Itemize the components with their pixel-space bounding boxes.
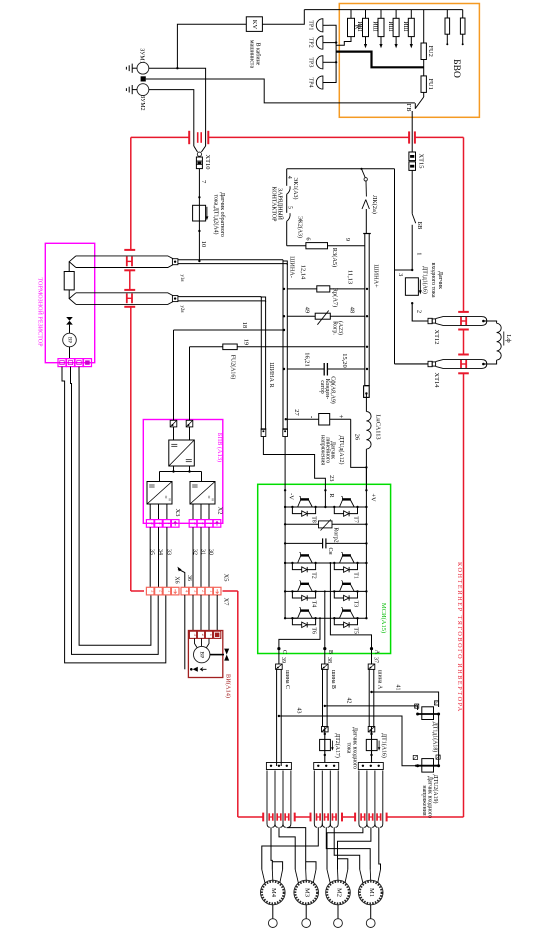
svg-text:БВО: БВО — [451, 59, 461, 78]
plug XT12 — [428, 318, 432, 323]
svg-text:A: A — [374, 650, 381, 655]
svg-text:Rогр.: Rогр. — [331, 321, 337, 335]
bus BUS+ bar — [365, 234, 369, 386]
svg-text:42: 42 — [345, 698, 351, 704]
sensor DT2(A17) phase B current — [324, 733, 326, 735]
connector XT15 — [409, 152, 416, 161]
switch BV — [412, 214, 416, 223]
snubber capacitor Cn — [285, 542, 323, 544]
right rail +V — [365, 507, 367, 618]
svg-text:ВИ(А14): ВИ(А14) — [224, 674, 231, 698]
svg-text:ЛК(2а): ЛК(2а) — [371, 195, 378, 214]
bushing insulators — [446, 10, 448, 18]
red feedthroughs at XT12/XT14 tubes — [458, 311, 469, 313]
weave daisy links — [272, 862, 282, 866]
sensor DT1d2(A4) reverse current — [198, 196, 200, 198]
svg-text:ИШ: ИШ — [402, 21, 408, 31]
ground for ZUM1 — [132, 67, 137, 69]
fuse FU2 — [423, 10, 425, 43]
lower converter left — [147, 482, 172, 505]
phase B takeoff from row2 — [324, 591, 326, 648]
svg-text:36: 36 — [186, 575, 192, 581]
svg-text:ШИНА-: ШИНА- — [289, 256, 296, 278]
red container outline - top edge — [131, 136, 189, 138]
MSI(A15) green box — [258, 484, 391, 653]
svg-text:ЭК1(А3): ЭК1(А3) — [292, 178, 299, 200]
BVO top bus wire — [304, 9, 462, 11]
phase row 2 T4 T3 — [285, 590, 366, 592]
motor M4 — [261, 880, 286, 905]
svg-text:ЭК2(А3): ЭК2(А3) — [297, 216, 304, 238]
svg-text:ДТ2(А17): ДТ2(А17) — [334, 733, 341, 758]
svg-text:Т3: Т3 — [352, 601, 358, 608]
svg-text:R: R — [328, 493, 335, 498]
BVO orange box — [339, 4, 479, 118]
wires X7 to VI box — [192, 595, 194, 631]
svg-text:43: 43 — [295, 708, 301, 714]
brake fan supply wires (3 nested U) — [62, 367, 166, 663]
wire ZUM2 to cable left line — [149, 90, 194, 146]
shina C bar — [276, 664, 283, 669]
bundle C — [266, 763, 291, 770]
wire 3 tap to left drop — [411, 269, 413, 271]
svg-text:ДТ1(А16): ДТ1(А16) — [381, 733, 388, 758]
svg-text:М1: М1 — [368, 888, 375, 897]
lower converter right — [190, 482, 215, 505]
converter outputs to X3 — [149, 504, 151, 520]
connector XT10 — [197, 152, 201, 156]
svg-text:26: 26 — [353, 434, 360, 440]
bundle A — [358, 763, 383, 770]
bus BUS- bar — [283, 261, 287, 429]
weave wires — [271, 827, 272, 866]
svg-text:у2я: у2я — [179, 305, 184, 313]
inductor LnCA113 — [365, 394, 367, 412]
TP feeder vertical — [329, 25, 336, 82]
svg-text:БВ: БВ — [416, 222, 423, 230]
svg-text:6: 6 — [304, 237, 311, 240]
svg-text:Rр(А7): Rр(А7) — [332, 288, 339, 308]
resistor R3(A5) row — [287, 245, 306, 247]
buzzer ZUM1 — [137, 62, 149, 74]
wires 32 31 30 — [192, 527, 194, 587]
wire 41 phase A to DT sensors — [370, 691, 372, 693]
phase row 1 T2 T1 — [285, 562, 366, 564]
contactor LK(2a) — [360, 168, 362, 170]
charging contactor bracket wire — [286, 169, 288, 186]
svg-text:38: 38 — [326, 657, 332, 663]
svg-text:+V: +V — [370, 493, 377, 502]
contact EK2(A3) — [287, 213, 290, 221]
svg-text:ШИНА+: ШИНА+ — [373, 264, 380, 288]
sensor DT1d1(A6) input current — [405, 278, 418, 296]
svg-text:КОНТАКТОР: КОНТАКТОР — [271, 187, 277, 223]
switch GV — [423, 92, 425, 97]
wire to XT12 — [412, 303, 428, 321]
svg-text:ДТUд(А12): ДТUд(А12) — [338, 436, 345, 465]
wire KV left to ZUM1 — [177, 24, 246, 68]
svg-text:XT12: XT12 — [433, 330, 440, 345]
resistor tube 1 — [76, 256, 173, 259]
svg-text:C: C — [281, 650, 288, 654]
sensor DT1(A16) phase A current — [370, 733, 372, 735]
bundle B — [314, 763, 339, 770]
row resistor Rr(A7) — [287, 288, 317, 290]
svg-text:FU2(А16): FU2(А16) — [229, 355, 236, 380]
svg-text:шина C: шина C — [284, 670, 290, 689]
red feedthrough at GV wire — [408, 131, 410, 143]
inductor Lf — [484, 321, 497, 323]
svg-text:+: + — [337, 415, 345, 419]
red link to X5 connector row — [131, 590, 144, 592]
phase output dots — [277, 647, 280, 650]
wires 35 34 33 — [149, 527, 151, 587]
svg-text:Т2: Т2 — [311, 572, 317, 579]
red container outline - bottom edge segments — [238, 816, 263, 818]
svg-text:напряжения: напряжения — [319, 435, 325, 465]
svg-text:Rогр2: Rогр2 — [332, 527, 338, 542]
svg-text:Т5: Т5 — [352, 627, 358, 634]
svg-text:LнСА113: LнСА113 — [374, 414, 381, 439]
svg-text:ВР: ВР — [199, 651, 205, 658]
brake box connector squares — [58, 359, 66, 367]
snubber resistor Rogr2 — [285, 523, 318, 525]
svg-text:Т4: Т4 — [311, 601, 317, 608]
phase row 3 T6 T5 — [285, 617, 366, 619]
row capacitor Cf(A8,A9) — [287, 368, 324, 370]
sensor DT1d1(A18) — [422, 707, 434, 720]
IGBT T7 — [334, 506, 339, 508]
svg-text:37: 37 — [372, 657, 378, 663]
svg-text:XT14: XT14 — [433, 373, 440, 389]
svg-text:БПВ (А13): БПВ (А13) — [216, 433, 223, 462]
svg-text:FU2: FU2 — [427, 46, 434, 57]
svg-text:B: B — [327, 650, 334, 654]
svg-text:М3: М3 — [304, 888, 311, 897]
sensor DTU2(A19) — [422, 759, 434, 773]
svg-text:XT15: XT15 — [417, 154, 424, 169]
svg-text:В кабине: В кабине — [254, 43, 261, 66]
svg-text:ТР2: ТР2 — [308, 38, 314, 48]
brake resistor magenta box — [45, 243, 94, 362]
row varistor Rogr(A23) — [287, 315, 315, 317]
VI connector squares — [189, 631, 196, 638]
wire GV to red boundary and XT15 — [411, 111, 413, 152]
motor M3 — [294, 880, 319, 905]
BPV magenta box — [143, 420, 223, 524]
svg-text:МСИ(А15): МСИ(А15) — [380, 603, 387, 633]
bus BUS R bar — [261, 297, 265, 429]
bus R feed path wire 23 — [263, 437, 325, 508]
svg-text:X5: X5 — [222, 574, 229, 582]
red feedthrough at XT10 cable — [188, 131, 190, 144]
svg-text:X3: X3 — [174, 509, 181, 517]
svg-text:R3(А5): R3(А5) — [331, 248, 338, 268]
svg-text:32: 32 — [191, 549, 197, 555]
svg-text:27: 27 — [293, 409, 300, 416]
svg-text:ИШ: ИШ — [372, 21, 378, 31]
svg-text:шина A: шина A — [376, 670, 382, 690]
svg-text:41: 41 — [394, 685, 400, 691]
link A18 to A19 — [438, 714, 440, 766]
wire 36 down to VI — [184, 595, 186, 669]
contact EK1(A3) — [287, 186, 290, 194]
red link X7 row to inner corner — [223, 590, 238, 592]
svg-text:FU1: FU1 — [427, 79, 434, 90]
svg-text:ИШ: ИШ — [387, 21, 393, 31]
red container outline - right edge — [463, 137, 465, 312]
buzzer ZUM2 — [137, 84, 149, 96]
fuse FU1 — [423, 60, 425, 76]
box KV — [246, 17, 262, 32]
svg-text:шина B: шина B — [330, 670, 336, 689]
wire ZUM1 to cable right line — [176, 67, 178, 69]
svg-text:49: 49 — [304, 307, 311, 313]
resistor tube 2 — [76, 293, 173, 296]
svg-text:48: 48 — [349, 307, 356, 313]
connector arrows inside VI — [193, 667, 198, 672]
svg-text:Сн: Сн — [327, 547, 333, 555]
top DC converter — [173, 427, 175, 440]
motor terminal drops — [261, 866, 263, 870]
plug XT14 — [428, 361, 432, 366]
VI(A14) box — [188, 631, 222, 678]
svg-text:КОНТЕЙНЕР ТЯГОВОГО ИНВЕРТОРА: КОНТЕЙНЕР ТЯГОВОГО ИНВЕРТОРА — [456, 562, 464, 713]
wire 43 phase C — [278, 715, 280, 717]
shina B bar — [322, 664, 329, 669]
wire top rail to LK and XT14 drop — [287, 168, 395, 170]
svg-text:35: 35 — [149, 549, 155, 555]
svg-text:Датчик: Датчик — [437, 271, 443, 289]
fan blade symbol — [210, 654, 224, 656]
feed wires into inverter — [284, 437, 286, 508]
shina A bar — [368, 664, 375, 669]
cable tube to XT14 — [436, 360, 487, 369]
svg-text:11,13: 11,13 — [346, 270, 353, 284]
left rail -V — [284, 507, 286, 618]
resistor R in BVO — [350, 10, 352, 19]
svg-text:9: 9 — [344, 238, 351, 241]
red feedthroughs at brake resistor tubes — [124, 249, 135, 251]
wire 42 phase B — [324, 705, 326, 707]
wire KV right to BVO top bus — [262, 10, 304, 25]
fan VR in VI — [195, 638, 198, 648]
phase A takeoff from row1 — [330, 563, 371, 649]
cable tube to XT12 — [436, 317, 487, 326]
svg-text:4: 4 — [286, 176, 292, 179]
svg-text:23: 23 — [328, 475, 335, 481]
svg-text:-V: -V — [287, 493, 294, 500]
svg-text:≈: ≈ — [166, 498, 171, 501]
svg-text:ЗУМ2: ЗУМ2 — [139, 95, 145, 110]
R bottom wire to TP chain — [336, 37, 351, 46]
svg-text:М2: М2 — [335, 888, 342, 897]
svg-text:машиниста: машиниста — [248, 40, 254, 69]
svg-text:X7: X7 — [222, 598, 229, 607]
svg-text:Т8: Т8 — [311, 516, 317, 523]
wire left drop to XT14 — [395, 363, 429, 365]
svg-text:16,21: 16,21 — [304, 352, 311, 366]
distribution to two lower converters — [173, 466, 175, 472]
inter-tube resistor — [68, 262, 70, 272]
svg-text:входного тока: входного тока — [430, 263, 436, 298]
svg-text:Т7: Т7 — [352, 516, 358, 523]
svg-text:≈: ≈ — [209, 498, 214, 501]
phase C takeoff from row3 — [279, 618, 320, 648]
svg-text:тока,ДТ1д2(А4): тока,ДТ1д2(А4) — [213, 195, 220, 235]
svg-text:31: 31 — [199, 549, 205, 555]
svg-text:30: 30 — [207, 549, 213, 555]
svg-text:ТР3: ТР3 — [308, 57, 314, 67]
arrow X6 wire 36 — [178, 569, 185, 587]
cable tube1 to BUS- bar — [178, 259, 283, 261]
svg-text:XT10: XT10 — [204, 155, 211, 170]
svg-text:33: 33 — [165, 549, 171, 555]
svg-text:Датчик обратного: Датчик обратного — [219, 192, 226, 237]
svg-text:ДТ1д1(А18): ДТ1д1(А18) — [431, 722, 438, 753]
wire buzzers to GV hinge — [146, 79, 415, 103]
ground for ZUM2 — [132, 89, 137, 91]
phase wires through green edge — [278, 649, 280, 664]
svg-text:ТОРМОЗНОЙ РЕЗИСТОР: ТОРМОЗНОЙ РЕЗИСТОР — [37, 277, 45, 347]
svg-text:ШИНА R: ШИНА R — [268, 362, 275, 388]
svg-text:X2: X2 — [217, 507, 224, 515]
terminal block between buzzers — [141, 76, 146, 81]
row 18 from BPV — [174, 329, 284, 331]
motor M2 — [326, 880, 351, 905]
svg-text:1: 1 — [415, 252, 422, 255]
svg-text:10: 10 — [200, 241, 207, 247]
row 19 with fuse FU2(A16) — [190, 346, 223, 348]
svg-text:ГВ: ГВ — [405, 104, 412, 112]
thick feeder wire TP chain to FU2 — [336, 52, 424, 68]
wire XT10 down — [198, 169, 200, 261]
svg-text:X6: X6 — [173, 576, 179, 583]
IGBT T8 — [292, 506, 297, 508]
wires rows18/19 down into BPV — [173, 330, 175, 420]
BPV input connector squares — [170, 420, 177, 427]
svg-text:Lф: Lф — [505, 334, 512, 342]
svg-text:39: 39 — [280, 657, 286, 663]
row 27 voltage sensor DTUd(A12) — [287, 418, 318, 420]
svg-text:3: 3 — [397, 273, 404, 276]
svg-text:М4: М4 — [270, 888, 277, 898]
svg-text:5: 5 — [286, 206, 292, 209]
motor M1 — [358, 880, 383, 905]
svg-text:сатор: сатор — [319, 380, 325, 394]
wire XT15 to BV — [411, 170, 413, 213]
svg-text:(А23): (А23) — [337, 321, 344, 335]
red feedthroughs at motor cable bundles — [262, 813, 264, 822]
svg-text:напряжения: напряжения — [421, 785, 427, 815]
svg-text:34: 34 — [157, 549, 163, 555]
fan VR in brake box — [66, 317, 73, 321]
svg-text:KV: KV — [251, 20, 258, 30]
svg-text:ИШ: ИШ — [356, 21, 362, 31]
red container outline - left edge lower — [130, 307, 132, 591]
svg-text:ДТ1д1(А6): ДТ1д1(А6) — [422, 266, 429, 294]
svg-text:тока: тока — [346, 743, 352, 754]
svg-text:у1я: у1я — [179, 274, 184, 282]
loudspeakers TP1-TP4 — [316, 19, 323, 32]
surge arresters ISh x4 — [365, 10, 367, 19]
svg-text:19: 19 — [242, 339, 249, 345]
cable tube2 to BUS R bar — [178, 296, 261, 298]
svg-text:Т1: Т1 — [352, 572, 358, 579]
svg-text:ТР1: ТР1 — [308, 20, 314, 30]
red container outline - left edge upper — [130, 137, 132, 250]
svg-text:15,20: 15,20 — [341, 353, 348, 367]
svg-text:12,14: 12,14 — [299, 265, 306, 280]
svg-text:Т6: Т6 — [311, 627, 317, 634]
svg-text:ТР4: ТР4 — [308, 77, 314, 87]
svg-text:ЗУМ1: ЗУМ1 — [138, 48, 144, 63]
svg-text:18: 18 — [241, 322, 248, 328]
cable taper into XT10 — [194, 146, 198, 152]
top chopper row rails — [285, 506, 366, 508]
svg-text:ВР: ВР — [66, 337, 71, 343]
svg-text:2: 2 — [415, 310, 422, 313]
